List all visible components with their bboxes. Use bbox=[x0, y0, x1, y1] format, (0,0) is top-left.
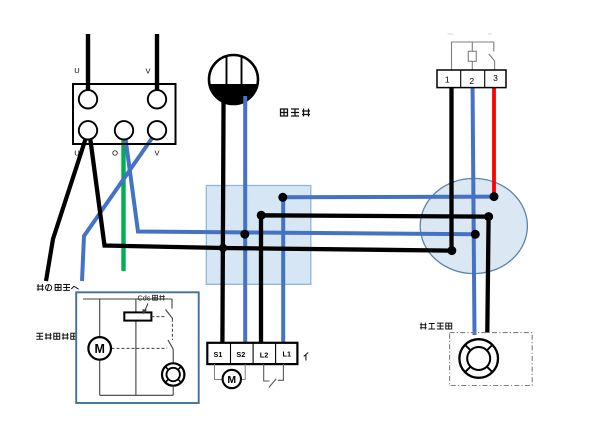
wire: black from lamp receptacle down to S1 bbox=[222, 90, 223, 346]
wire: black feed into terminal V (top left) bbox=[155, 34, 159, 99]
svg-text:U: U bbox=[74, 149, 79, 158]
lamp receptacle filled bottom segment bbox=[209, 84, 257, 104]
lamp receptacle (exposed ceiling rosette) circle bbox=[209, 55, 258, 104]
schematic: wire switch to lamp bbox=[172, 350, 174, 364]
lamp receptacle inner divider left bbox=[226, 57, 228, 85]
wire: blue from lamp receptacle down to S2 bbox=[243, 90, 247, 346]
terminal block (top left) border bbox=[73, 84, 176, 144]
schematic: left rail bbox=[99, 299, 101, 395]
wire: black bus from terminal U right to outlet box bbox=[90, 133, 452, 251]
timer block cell dividers bbox=[461, 70, 485, 88]
terminal O bottom circle bbox=[115, 121, 133, 139]
node: joint black bus crossing in junction box bbox=[219, 244, 227, 252]
schematic: lamp to bottom rail bbox=[172, 386, 174, 396]
lamp receptacle inner divider right bbox=[241, 57, 243, 84]
strip motor M bbox=[223, 370, 241, 388]
faint ticks above timer bbox=[448, 33, 492, 35]
node: joint black elbow in junction box bbox=[257, 211, 266, 220]
svg-text:V: V bbox=[145, 67, 150, 76]
svg-text:3: 3 bbox=[493, 73, 498, 83]
node: joint black bus end bbox=[447, 246, 456, 255]
svg-text:O: O bbox=[112, 149, 118, 158]
schematic box (展開接続図) blue frame bbox=[76, 292, 199, 403]
node: joint blue bus on blue vertical bbox=[471, 230, 480, 239]
junction box (light blue rectangle) bbox=[206, 186, 310, 285]
timer terminal block 1-2-3 bbox=[437, 70, 506, 88]
schematic: dashed link Cds cell to switch bbox=[151, 316, 165, 318]
node: joint blue elbow in junction box bbox=[278, 193, 287, 202]
schematic: second switch blade bbox=[168, 340, 173, 350]
wire: green earth from terminal O down bbox=[121, 131, 125, 271]
schematic: lamp symbol bbox=[162, 363, 184, 385]
label 露出形 (fake glyphs) bbox=[281, 109, 311, 117]
schematic: motor M bbox=[88, 337, 111, 360]
label 他の負荷へ (fake glyphs) bbox=[37, 284, 79, 291]
wire: black feed into terminal U (top left) bbox=[86, 34, 90, 99]
label イ bbox=[304, 353, 309, 361]
wire: black from timer terminal 1 down into outlet box bbox=[449, 80, 453, 251]
schematic: Cds cell rectangle bbox=[124, 312, 151, 320]
wire: blue from terminal V down-left to other load bbox=[82, 131, 157, 281]
node: joint black elbow upper bbox=[484, 212, 493, 221]
outlet box (large light blue circle) bbox=[420, 178, 527, 273]
blue wire stub over lamp fill bbox=[243, 96, 247, 106]
label 展開接続図 (fake glyphs) bbox=[36, 333, 76, 340]
svg-text:S2: S2 bbox=[236, 350, 245, 359]
svg-text:V: V bbox=[154, 149, 159, 158]
svg-text:L2: L2 bbox=[260, 350, 269, 359]
omitted lamp symbol bbox=[459, 339, 498, 378]
schematic: dashed vertical between switches bbox=[171, 319, 173, 340]
wire: blue from L1 up and right to red joint bbox=[283, 197, 494, 346]
wire: black left leg from terminal U to other load bbox=[46, 133, 88, 281]
motor terminal strip S1 S2 L2 L1 bbox=[207, 343, 297, 364]
schematic: bottom rail bbox=[100, 394, 174, 396]
strip switch leads bbox=[264, 364, 270, 381]
node: joint blue bus crossing in junction box bbox=[240, 230, 249, 239]
wire: black from L2 up and right to outlet box bbox=[261, 215, 489, 346]
svg-text:2: 2 bbox=[469, 76, 474, 86]
svg-text:U: U bbox=[74, 66, 79, 75]
strip motor connector bbox=[215, 364, 223, 379]
svg-text:L1: L1 bbox=[283, 350, 292, 359]
wire: blue bus from terminal O right to outlet box bbox=[125, 131, 476, 234]
wire: red from timer terminal 3 down to joint bbox=[492, 80, 496, 197]
node: joint red-blue bbox=[490, 192, 499, 201]
label 施工省略 (fake glyphs) bbox=[420, 323, 452, 330]
terminal V top circle bbox=[148, 90, 166, 108]
strip cell dividers bbox=[231, 343, 276, 364]
omitted-work dashed box bbox=[450, 333, 533, 386]
terminal U bottom circle bbox=[79, 121, 97, 139]
strip switch blade bbox=[269, 379, 276, 388]
terminal U top circle bbox=[79, 90, 97, 108]
svg-text:Cds: Cds bbox=[138, 294, 151, 303]
svg-text:S1: S1 bbox=[214, 350, 223, 359]
terminal V bottom circle bbox=[148, 121, 166, 139]
schematic: Cds switch contact bbox=[171, 299, 173, 309]
wire: black from outlet box down to omitted lamp box bbox=[487, 217, 488, 333]
svg-text:M: M bbox=[94, 342, 104, 356]
schematic: dashed link motor to switch bbox=[112, 347, 168, 349]
svg-text:1: 1 bbox=[445, 74, 450, 84]
wire: blue from timer terminal 2 down to omitted lamp bbox=[473, 80, 475, 335]
schematic: top rail bbox=[83, 298, 172, 300]
timer internal schematic (gray) bbox=[452, 42, 495, 70]
arrow from Cds label to cell bbox=[145, 304, 148, 311]
schematic: middle branch bbox=[135, 299, 137, 395]
svg-text:M: M bbox=[227, 374, 236, 386]
terminal block (top left) white body fill bbox=[73, 84, 176, 144]
